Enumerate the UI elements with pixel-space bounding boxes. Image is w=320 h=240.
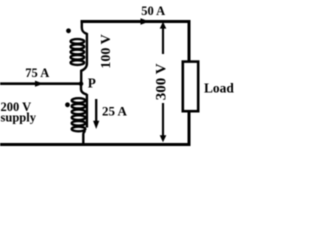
inductor L1 turn 2 [71,44,85,49]
voltage arrow 300 V upper shaft [162,24,164,55]
inductor L2 turn 1 [72,98,86,103]
inductor L2 lower winding lead top [81,84,87,95]
svg-text:P: P [88,75,96,90]
arrowhead 50 A [141,18,150,24]
inductor L1 turn 3 [71,50,85,55]
inductor L1 turn 5 [71,60,85,65]
svg-text:100 V: 100 V [99,34,114,68]
polarity dot lower winding [65,102,70,107]
inductor L2 turn 2 [72,104,86,109]
polarity dot upper winding [66,28,71,33]
wire left input (75 A feed) [0,82,82,85]
wire bottom horizontal [0,143,191,146]
wire right vertical upper [188,20,191,63]
inductor L2 turn 3 [72,110,86,115]
current arrow 25 A shaft [95,99,97,123]
inductor L1 turn 4 [71,55,85,60]
svg-text:Load: Load [204,80,234,95]
inductor L2 right conductor [86,94,88,128]
svg-text:supply: supply [1,111,37,125]
inductor L2 turn 4 [72,115,86,120]
inductor L2 turn 6 [72,127,86,132]
arrowhead 300 V up [160,22,167,29]
svg-text:75 A: 75 A [25,66,49,80]
svg-text:300 V: 300 V [153,63,169,100]
wire right vertical lower [188,111,191,147]
inductor L1 turn 1 [71,39,85,44]
inductor L2 winding lead bottom [83,131,85,146]
junction node P dot [79,81,84,86]
svg-text:25 A: 25 A [102,104,128,119]
inductor L1 upper winding lead top [82,21,87,34]
inductor L2 turn 5 [72,121,86,126]
inductor L1 right conductor [86,33,88,64]
arrowhead 75 A [35,81,44,87]
svg-text:50 A: 50 A [141,4,165,18]
inductor L1 winding lead bottom [81,64,87,84]
voltage arrow 300 V lower shaft [162,103,164,136]
load resistor box [183,62,198,112]
arrowhead 25 A [93,121,99,129]
arrowhead 300 V down [160,135,167,142]
wire top horizontal [81,20,191,23]
